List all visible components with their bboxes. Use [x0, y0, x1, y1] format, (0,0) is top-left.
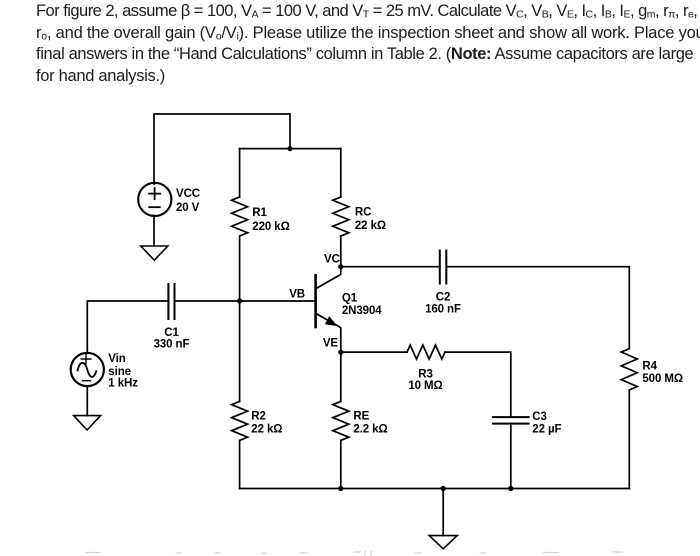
- label RC 22 kOhm: [355, 206, 386, 232]
- svg-text:C2: C2: [436, 292, 451, 304]
- node junction top rail: [287, 146, 292, 151]
- wire VCC to ground: [153, 215, 155, 246]
- svg-text:2N3904: 2N3904: [342, 305, 382, 317]
- svg-text:RE: RE: [353, 410, 369, 422]
- svg-text:220 kΩ: 220 kΩ: [252, 221, 289, 233]
- source Vin (sine): [71, 353, 104, 386]
- resistor RE: [333, 401, 349, 440]
- wire R2 top lead: [239, 301, 241, 401]
- ground (below VCC): [141, 246, 168, 260]
- capacitor C2: [440, 251, 447, 284]
- wire R3 to C3: [445, 352, 511, 417]
- label C1 330 nF: [154, 327, 190, 351]
- svg-text:C3: C3: [532, 411, 547, 423]
- svg-text:Q1: Q1: [342, 292, 358, 304]
- svg-text:22 µF: 22 µF: [532, 423, 561, 435]
- svg-text:sine: sine: [108, 366, 131, 378]
- wire bottom rail: [240, 488, 630, 490]
- wire VE to R3: [341, 351, 407, 353]
- svg-text:RC: RC: [355, 206, 371, 218]
- wire RE bottom lead: [340, 440, 342, 488]
- svg-text:160 nF: 160 nF: [425, 304, 461, 316]
- label C2 160 nF: [425, 292, 461, 316]
- resistor R1: [232, 197, 248, 236]
- wire ground stem: [442, 489, 444, 536]
- resistor R4: [621, 349, 637, 390]
- label RE 2.2 kOhm: [353, 410, 387, 435]
- label R4 500 MOhm: [642, 360, 683, 385]
- wire rail R1-RC: [240, 148, 341, 150]
- capacitor C3: [493, 417, 529, 424]
- wire R1 bottom lead to base rail: [239, 236, 241, 301]
- wire C2 to R4 top: [446, 267, 629, 349]
- svg-text:R1: R1: [252, 207, 267, 219]
- wire C3 bottom lead: [510, 424, 512, 489]
- wire RE top lead: [340, 352, 342, 401]
- svg-text:22 kΩ: 22 kΩ: [251, 423, 282, 435]
- svg-text:R2: R2: [251, 410, 266, 422]
- svg-text:VE: VE: [323, 338, 339, 350]
- faint cut-off caption remnants at bottom edge: [86, 552, 622, 556]
- svg-text:C1: C1: [164, 327, 179, 339]
- svg-text:1 kHz: 1 kHz: [108, 377, 138, 389]
- svg-text:330 nF: 330 nF: [154, 338, 190, 350]
- wire R2 bottom lead: [239, 440, 241, 488]
- resistor R3: [407, 345, 445, 359]
- label R2 22 kOhm: [251, 410, 282, 435]
- ground (below Vin): [74, 416, 101, 430]
- resistor RC: [333, 197, 349, 236]
- node bottom ground: [441, 486, 446, 491]
- wire VC to C2: [341, 266, 440, 268]
- wire base rail Vin/C1 to base: [175, 300, 316, 302]
- node bottom C3: [508, 486, 513, 491]
- voltage source VCC: [138, 183, 171, 216]
- label Vin sine 1 kHz: [108, 353, 138, 390]
- node VE: [338, 350, 343, 355]
- wire drop from top rail: [289, 114, 291, 149]
- transistor Q1 2N3904: [316, 267, 341, 352]
- wire RC top lead: [340, 149, 342, 197]
- ground (main, bottom): [429, 536, 457, 549]
- wire R4 bottom lead: [628, 390, 630, 489]
- svg-text:20 V: 20 V: [176, 202, 200, 214]
- svg-text:VC: VC: [324, 254, 340, 266]
- label C3 22 uF: [532, 411, 561, 435]
- svg-text:10 MΩ: 10 MΩ: [408, 380, 442, 392]
- svg-text:22 kΩ: 22 kΩ: [355, 220, 386, 232]
- resistor R2: [232, 401, 248, 440]
- svg-text:R4: R4: [642, 360, 657, 372]
- svg-text:VCC: VCC: [176, 188, 200, 200]
- svg-text:2.2 kΩ: 2.2 kΩ: [353, 423, 387, 435]
- wire top rail VCC to drop: [154, 113, 290, 115]
- label R3 10 MOhm: [408, 368, 442, 392]
- wire RC bottom lead to VC: [340, 236, 342, 267]
- label VCC 20 V: [176, 188, 200, 214]
- node VC: [338, 264, 343, 269]
- node bottom RE: [338, 486, 343, 491]
- node VB junction: [237, 298, 242, 303]
- wire Vin to ground: [86, 386, 88, 416]
- capacitor C1: [168, 284, 174, 319]
- wire VCC stem top: [153, 114, 155, 184]
- wire R1 top lead: [239, 149, 241, 197]
- label Q1 2N3904: [342, 292, 382, 317]
- svg-text:R3: R3: [418, 368, 433, 380]
- svg-text:VB: VB: [289, 289, 305, 301]
- svg-text:Vin: Vin: [108, 353, 125, 365]
- wire Vin top lead: [87, 301, 168, 353]
- label R1 220 kOhm: [252, 207, 289, 233]
- svg-text:500 MΩ: 500 MΩ: [642, 373, 683, 385]
